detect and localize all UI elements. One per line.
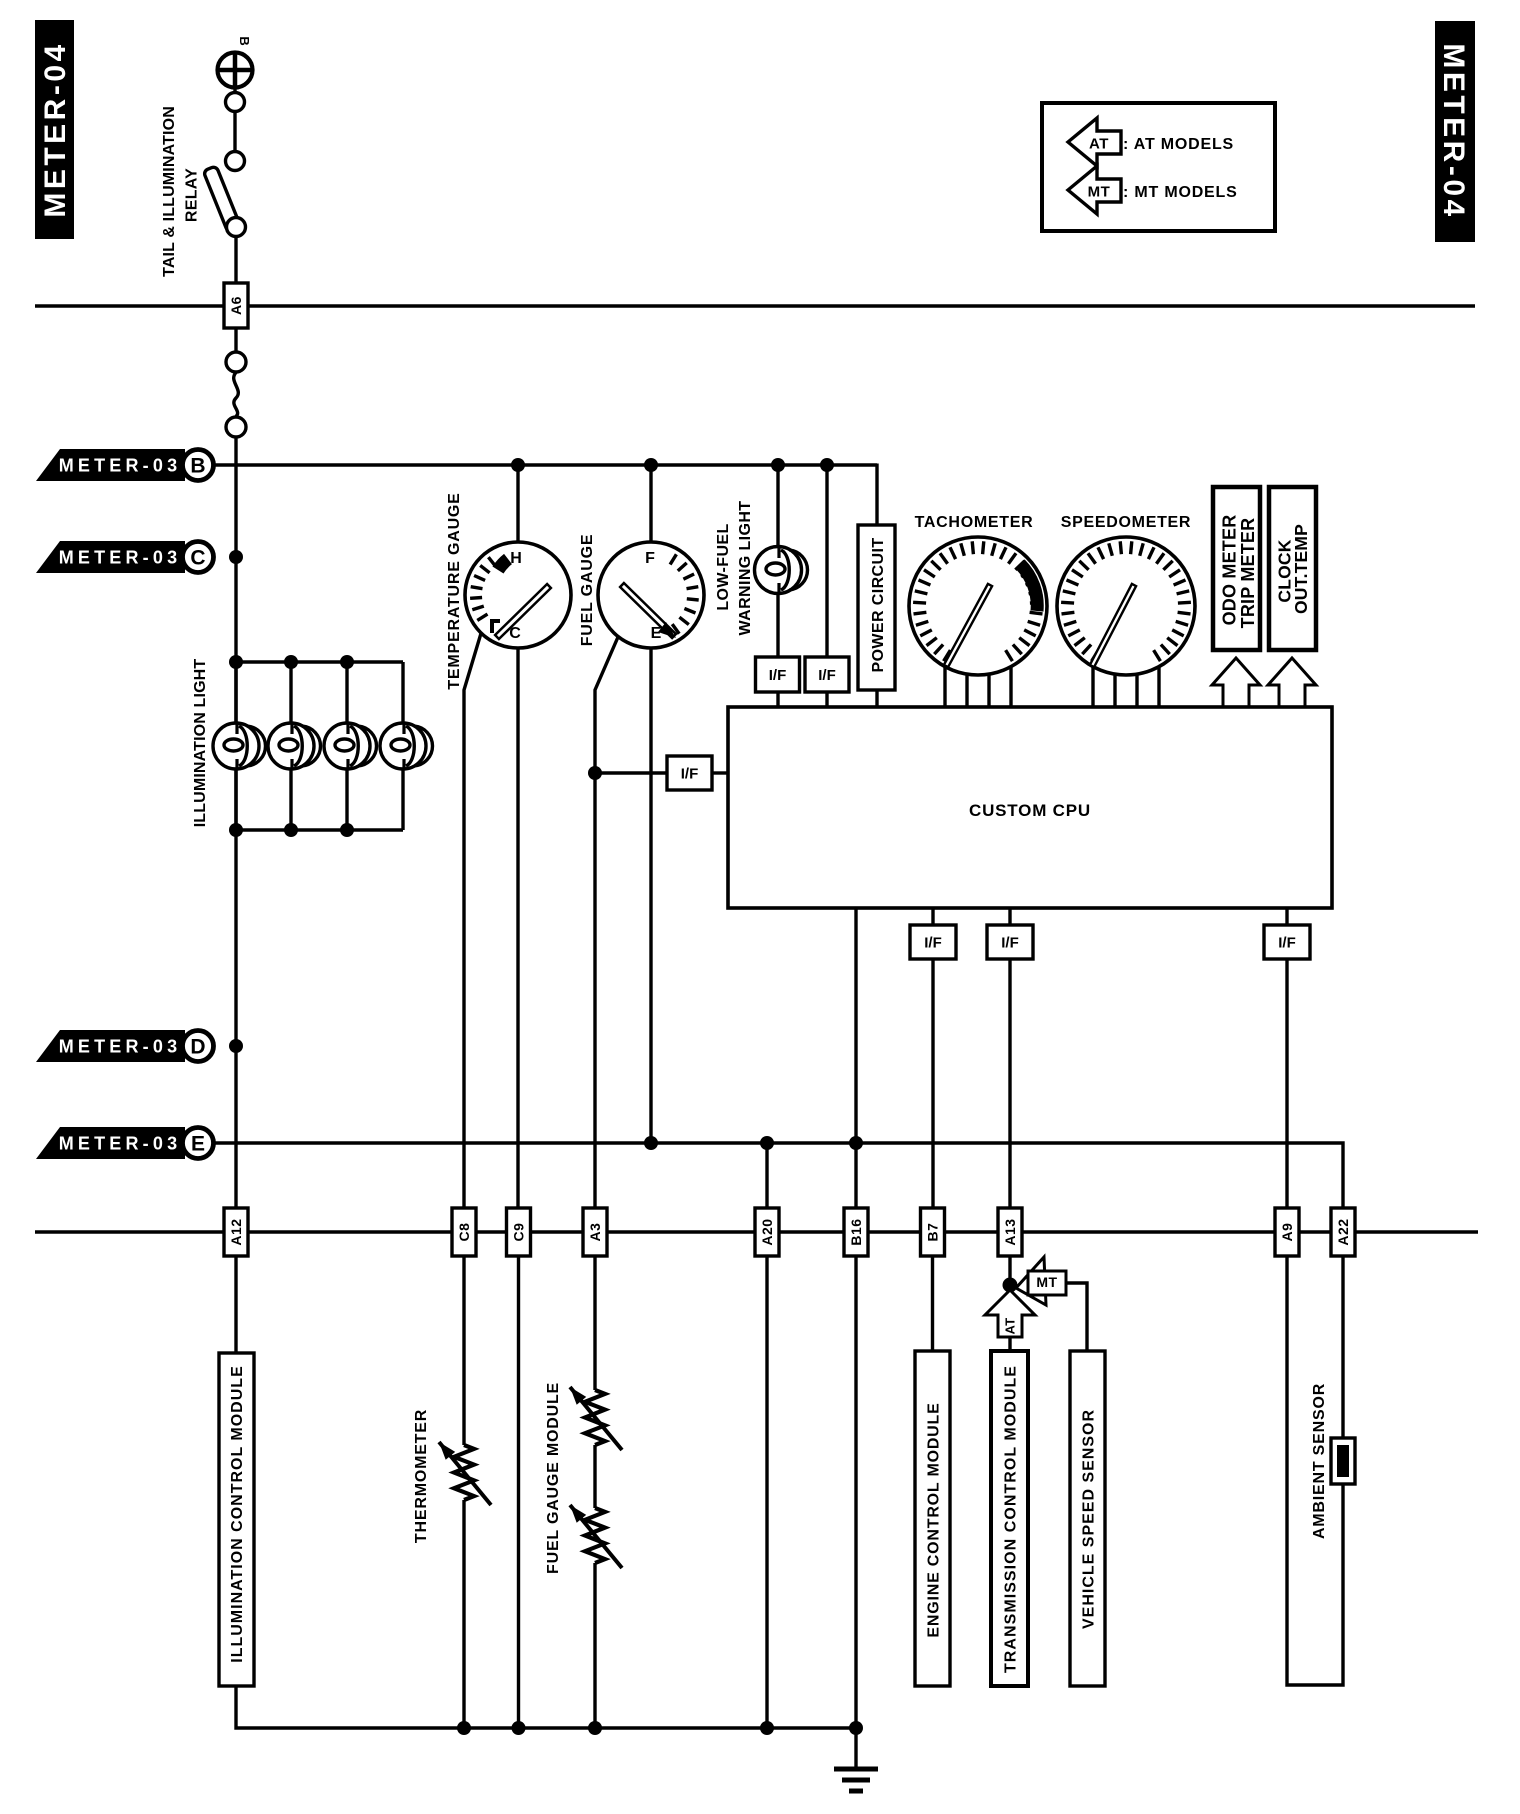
node E bus / fuel ground	[644, 1136, 658, 1150]
wire to ground bus	[462, 1500, 465, 1728]
svg-text:C: C	[190, 547, 205, 570]
page boundary rule bottom (connector row)	[35, 1230, 1478, 1234]
connector C8	[452, 1208, 476, 1256]
illumination lamp 2	[268, 723, 321, 769]
connector A6	[224, 283, 248, 328]
relay contact circle top	[226, 93, 245, 112]
svg-text:I/F: I/F	[818, 667, 836, 684]
svg-text:MT: MT	[1036, 1274, 1057, 1290]
connector A20	[755, 1208, 779, 1256]
wire CPU to B16	[854, 908, 857, 1232]
svg-text:B: B	[190, 455, 205, 478]
svg-text:METER-04: METER-04	[39, 41, 72, 217]
wire MT to vehicle speed sensor	[1066, 1283, 1087, 1351]
svg-text:TRANSMISSION CONTROL MODULE: TRANSMISSION CONTROL MODULE	[1002, 1365, 1019, 1673]
wire node to I/F	[595, 771, 667, 774]
wire CPU to I/F (B7)	[931, 908, 934, 925]
node C	[229, 550, 243, 564]
wire B bus to power circuit	[875, 464, 878, 526]
clock / out.temp box	[1269, 487, 1316, 650]
wire A3 down	[593, 1256, 596, 1390]
arrow MT	[1016, 1257, 1046, 1305]
ambient sensor element	[1331, 1438, 1355, 1484]
svg-text:AT: AT	[1089, 135, 1109, 152]
svg-text:C8: C8	[456, 1223, 472, 1242]
page label METER-04 left	[35, 20, 74, 239]
tag METER-03 D	[36, 1030, 185, 1062]
wire CPU to I/F (ambient)	[1285, 908, 1288, 925]
svg-text:TACHOMETER: TACHOMETER	[915, 514, 1034, 531]
connector A3	[583, 1208, 607, 1256]
legend box	[1042, 103, 1275, 231]
vehicle speed sensor	[1070, 1351, 1105, 1686]
svg-text:METER-04: METER-04	[1437, 43, 1470, 219]
wire	[233, 112, 236, 152]
node on A3 wire	[588, 766, 602, 780]
wire A13 to AT/MT node	[1008, 1256, 1011, 1285]
wires I/F to CPU	[776, 692, 779, 707]
svg-text:METER-03: METER-03	[59, 1037, 182, 1057]
odo meter / trip meter box	[1213, 487, 1260, 650]
wire module to ground bus	[236, 1686, 856, 1728]
svg-text:POWER CIRCUIT: POWER CIRCUIT	[870, 538, 887, 673]
wire C9 to ground bus	[517, 1256, 520, 1728]
svg-text:ODO METER: ODO METER	[1219, 515, 1239, 626]
svg-text:A22: A22	[1335, 1218, 1351, 1245]
svg-text:A13: A13	[1002, 1218, 1018, 1245]
interface I/F	[805, 657, 849, 692]
wire A9 down / ambient loop	[1287, 1256, 1343, 1685]
temperature gauge ground wire to C9	[516, 640, 519, 1208]
svg-text:D: D	[190, 1036, 205, 1059]
connector B16	[844, 1208, 868, 1256]
svg-text:A9: A9	[1279, 1223, 1295, 1242]
interface I/F (engine)	[910, 925, 956, 959]
page boundary rule top	[35, 304, 1475, 308]
svg-text:C9: C9	[511, 1223, 527, 1242]
illumination lamp 2 lead	[289, 662, 292, 830]
interface I/F (warning light)	[756, 657, 800, 692]
wire battery to relay	[233, 88, 236, 93]
connector A12	[224, 1208, 248, 1256]
ground	[834, 1767, 878, 1772]
svg-text:AMBIENT SENSOR: AMBIENT SENSOR	[1311, 1383, 1328, 1539]
connector A13	[998, 1208, 1022, 1256]
svg-text:F: F	[645, 550, 655, 567]
custom CPU	[728, 707, 1332, 908]
wire B bus to I/F	[825, 465, 828, 657]
svg-text:METER-03: METER-03	[59, 1134, 182, 1154]
connector A9	[1275, 1208, 1299, 1256]
wire B bus to fuel gauge	[649, 465, 652, 548]
fuel gauge	[598, 542, 704, 648]
illumination lamp 1	[213, 723, 266, 769]
arrow AT	[985, 1290, 1035, 1337]
illumination control module	[219, 1353, 254, 1686]
interface I/F (fuel sender)	[667, 756, 712, 790]
svg-text:B7: B7	[925, 1223, 941, 1242]
svg-text:TAIL & ILLUMINATION: TAIL & ILLUMINATION	[161, 106, 178, 277]
svg-text:ILLUMINATION CONTROL MODULE: ILLUMINATION CONTROL MODULE	[229, 1365, 246, 1663]
legend AT arrow	[1068, 118, 1121, 166]
svg-text:FUEL GAUGE: FUEL GAUGE	[579, 534, 596, 647]
wire I/F to A13	[1008, 959, 1011, 1232]
svg-text:LOW-FUEL: LOW-FUEL	[715, 523, 732, 610]
tag METER-03 B	[36, 449, 185, 481]
svg-text:CUSTOM CPU: CUSTOM CPU	[969, 801, 1091, 820]
temperature gauge sender wire to C8	[464, 630, 482, 1208]
illumination lamp 4 lead	[401, 662, 404, 830]
svg-text:B: B	[237, 36, 252, 45]
temperature gauge	[465, 542, 571, 648]
svg-text:MT: MT	[1088, 183, 1111, 200]
svg-text:RELAY: RELAY	[183, 168, 200, 222]
wire B bus to temperature gauge	[516, 465, 519, 548]
fuel gauge module resistor 1	[585, 1390, 605, 1445]
transmission control module	[991, 1351, 1028, 1686]
svg-text:H: H	[510, 550, 522, 567]
svg-text:OUT.TEMP: OUT.TEMP	[1291, 524, 1311, 614]
wire relay to A6	[234, 237, 237, 283]
wire A22 down	[1341, 1256, 1344, 1438]
wire B7 to engine control module	[931, 1256, 934, 1351]
interface I/F (transmission)	[987, 925, 1033, 959]
speedometer	[1057, 537, 1195, 675]
svg-text:I/F: I/F	[681, 765, 699, 782]
connector C9	[507, 1208, 531, 1256]
engine control module	[915, 1351, 950, 1686]
svg-text:METER-03: METER-03	[59, 456, 182, 476]
wire B16 to ground	[854, 1256, 857, 1768]
power circuit	[858, 525, 895, 690]
svg-text:TRIP METER: TRIP METER	[1238, 518, 1258, 629]
wire A12 to illumination control module	[234, 1256, 237, 1353]
svg-text:ENGINE CONTROL MODULE: ENGINE CONTROL MODULE	[925, 1402, 942, 1637]
page label METER-04 right	[1435, 21, 1475, 242]
wire C8 down	[462, 1256, 465, 1445]
bus B	[214, 463, 877, 466]
connector A22	[1331, 1208, 1355, 1256]
svg-text:: AT MODELS: : AT MODELS	[1123, 136, 1234, 153]
svg-text:I/F: I/F	[769, 667, 787, 684]
speedometer pins	[1091, 640, 1094, 707]
arrow CPU to odo meter	[1212, 658, 1260, 707]
connector B7	[921, 1208, 945, 1256]
arrow CPU to clock	[1268, 658, 1316, 707]
node E bus / B16	[849, 1136, 863, 1150]
tag METER-03 C	[36, 541, 185, 573]
svg-text:A12: A12	[228, 1218, 244, 1245]
wire E bus to A20	[765, 1143, 768, 1232]
illumination lamp 4	[380, 723, 433, 769]
lamp bus bottom	[236, 828, 403, 831]
main vertical wire	[234, 437, 237, 1208]
wire to ground bus	[593, 1563, 596, 1728]
svg-text:VEHICLE SPEED SENSOR: VEHICLE SPEED SENSOR	[1080, 1409, 1097, 1629]
fuel gauge ground wire to E bus	[649, 640, 652, 1143]
interface I/F (ambient)	[1264, 925, 1310, 959]
svg-text:WARNING LIGHT: WARNING LIGHT	[737, 501, 754, 636]
thermometer (variable resistor)	[454, 1445, 474, 1500]
wire I/F to CPU	[712, 771, 728, 774]
svg-text:FUEL GAUGE MODULE: FUEL GAUGE MODULE	[545, 1382, 562, 1574]
svg-text:I/F: I/F	[1001, 934, 1019, 951]
wire A20 to ground bus	[765, 1256, 768, 1728]
svg-text:METER-03: METER-03	[59, 548, 182, 568]
tachometer pins	[943, 640, 946, 707]
node E bus / A20	[760, 1136, 774, 1150]
node AT/MT	[1003, 1278, 1018, 1293]
wire I/F to B7	[931, 959, 934, 1232]
svg-text:B16: B16	[848, 1218, 864, 1245]
svg-text:ILLUMINATION LIGHT: ILLUMINATION LIGHT	[192, 659, 209, 828]
low-fuel warning light	[755, 547, 808, 594]
wire A6 to inline connector	[234, 328, 237, 352]
fuel gauge module resistor 2	[585, 1508, 605, 1563]
wire B bus to low-fuel light	[776, 465, 779, 552]
wire CPU to I/F (A13)	[1008, 908, 1011, 925]
legend MT arrow	[1068, 166, 1121, 214]
wire power circuit to CPU	[875, 690, 878, 707]
svg-text:A6: A6	[228, 296, 244, 315]
illumination lamp 3 lead	[345, 662, 348, 830]
svg-text:I/F: I/F	[924, 934, 942, 951]
svg-text:TEMPERATURE GAUGE: TEMPERATURE GAUGE	[446, 492, 463, 689]
svg-text:: MT MODELS: : MT MODELS	[1123, 184, 1238, 201]
node D	[229, 1039, 243, 1053]
svg-text:SPEEDOMETER: SPEEDOMETER	[1061, 514, 1191, 531]
svg-text:AT: AT	[1003, 1318, 1018, 1335]
svg-text:E: E	[191, 1133, 205, 1156]
svg-text:A20: A20	[759, 1218, 775, 1245]
tachometer	[909, 537, 1047, 675]
lamp bus top	[236, 660, 403, 663]
wire lamp to I/F	[776, 592, 779, 657]
tag METER-03 E	[36, 1127, 185, 1159]
illumination lamp 1 lead	[234, 662, 237, 830]
fuel gauge sender wire to A3	[595, 637, 618, 1208]
inline connector circles	[226, 352, 246, 372]
lamp bus junctions	[229, 655, 243, 669]
svg-text:I/F: I/F	[1278, 934, 1296, 951]
illumination lamp 3	[324, 723, 377, 769]
wire AT to transmission control module	[1008, 1337, 1011, 1351]
wire between resistors	[593, 1445, 596, 1508]
bus E	[214, 1143, 1343, 1208]
svg-text:A3: A3	[587, 1223, 603, 1242]
wire I/F to A9	[1285, 959, 1288, 1232]
svg-text:THERMOMETER: THERMOMETER	[413, 1409, 430, 1543]
